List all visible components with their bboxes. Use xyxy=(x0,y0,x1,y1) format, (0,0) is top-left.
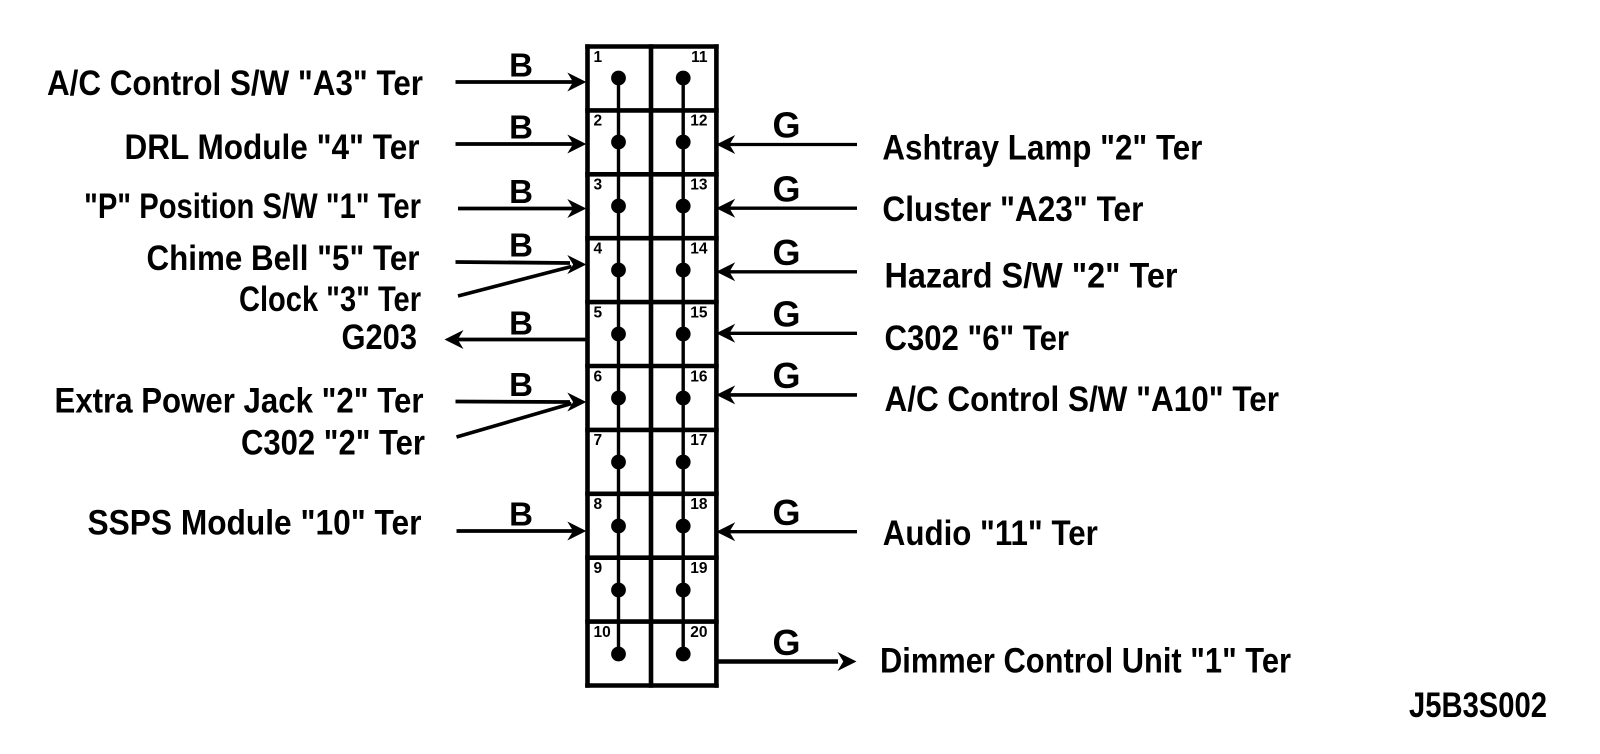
svg-text:Extra Power Jack "2" Ter: Extra Power Jack "2" Ter xyxy=(55,382,424,421)
svg-text:Clock "3" Ter: Clock "3" Ter xyxy=(239,280,421,319)
terminal dot pin 19 xyxy=(676,583,691,598)
svg-text:2: 2 xyxy=(594,113,603,130)
svg-text:9: 9 xyxy=(594,560,603,577)
svg-text:G: G xyxy=(772,169,800,210)
svg-text:Hazard S/W "2" Ter: Hazard S/W "2" Ter xyxy=(885,257,1178,296)
wire B into pin 4 (from Chime Bell) xyxy=(456,255,587,274)
svg-text:10: 10 xyxy=(594,624,611,641)
svg-text:"P" Position S/W "1" Ter: "P" Position S/W "1" Ter xyxy=(84,187,421,226)
svg-text:16: 16 xyxy=(690,368,708,385)
wire G into pin 18 xyxy=(716,522,857,541)
svg-text:G: G xyxy=(772,492,800,533)
wire G into pin 14 xyxy=(716,262,857,281)
wire from C302 "2" Ter into pin 6 (diagonal) xyxy=(457,404,572,438)
svg-text:G: G xyxy=(772,355,800,396)
svg-text:4: 4 xyxy=(594,241,603,258)
svg-text:B: B xyxy=(509,366,533,403)
wire B into pin 1 xyxy=(456,73,587,92)
svg-text:B: B xyxy=(509,109,533,146)
terminal dot pin 20 xyxy=(676,647,691,662)
wire B into pin 6 (from Extra Power Jack) xyxy=(456,393,587,412)
svg-text:3: 3 xyxy=(594,177,603,194)
svg-text:7: 7 xyxy=(594,432,603,449)
terminal dot pin 10 xyxy=(611,647,626,662)
terminal dot pin 13 xyxy=(676,199,691,214)
terminal bus wire, right column (pins 11-20) xyxy=(682,78,685,654)
terminal dot pin 18 xyxy=(676,519,691,534)
terminal dot pin 14 xyxy=(676,263,691,278)
svg-text:19: 19 xyxy=(690,560,708,577)
svg-text:12: 12 xyxy=(690,113,707,130)
terminal dot pin 17 xyxy=(676,455,691,470)
svg-text:C302 "6" Ter: C302 "6" Ter xyxy=(885,319,1070,358)
terminal dot pin 3 xyxy=(611,199,626,214)
terminal dot pin 4 xyxy=(611,263,626,278)
svg-text:G: G xyxy=(772,294,800,335)
terminal dot pin 9 xyxy=(611,583,626,598)
svg-text:6: 6 xyxy=(594,368,603,385)
svg-text:B: B xyxy=(509,305,533,342)
svg-text:Ashtray Lamp "2" Ter: Ashtray Lamp "2" Ter xyxy=(882,129,1202,168)
terminal bus wire, left column (pins 1-10) xyxy=(617,78,620,654)
svg-text:G203: G203 xyxy=(342,318,418,357)
wire B into pin 8 xyxy=(457,522,587,541)
svg-text:13: 13 xyxy=(690,177,708,194)
svg-text:17: 17 xyxy=(690,432,707,449)
svg-text:B: B xyxy=(509,173,533,210)
wire B into pin 3 xyxy=(458,199,586,218)
svg-text:A/C Control S/W "A10" Ter: A/C Control S/W "A10" Ter xyxy=(885,380,1280,419)
svg-text:8: 8 xyxy=(594,496,603,513)
svg-text:J5B3S002: J5B3S002 xyxy=(1409,686,1547,725)
wire B into pin 2 xyxy=(456,135,587,154)
svg-text:G: G xyxy=(772,622,800,663)
svg-text:DRL Module "4" Ter: DRL Module "4" Ter xyxy=(125,128,420,167)
terminal dot pin 7 xyxy=(611,455,626,470)
svg-text:11: 11 xyxy=(691,49,708,66)
terminal dot pin 12 xyxy=(676,135,691,150)
svg-text:Chime Bell "5" Ter: Chime Bell "5" Ter xyxy=(147,239,420,278)
terminal dot pin 5 xyxy=(611,327,626,342)
wire from Clock "3" Ter into pin 4 (diagonal) xyxy=(458,267,572,297)
svg-text:18: 18 xyxy=(690,496,708,513)
svg-text:B: B xyxy=(509,227,533,264)
svg-text:15: 15 xyxy=(690,304,708,321)
svg-text:A/C Control S/W "A3" Ter: A/C Control S/W "A3" Ter xyxy=(47,64,423,103)
svg-text:B: B xyxy=(509,47,533,84)
wire G into pin 13 xyxy=(716,199,857,218)
terminal dot pin 15 xyxy=(676,327,691,342)
wire G into pin 16 xyxy=(716,385,857,404)
connector housing grid xyxy=(585,44,719,688)
wire G from pin 20 to Dimmer Control Unit xyxy=(716,652,856,671)
wire G into pin 12 xyxy=(716,135,857,154)
svg-text:5: 5 xyxy=(594,304,603,321)
terminal dot pin 8 xyxy=(611,519,626,534)
terminal dot pin 1 xyxy=(611,71,626,86)
wire G into pin 15 xyxy=(716,324,857,343)
svg-text:C302 "2" Ter: C302 "2" Ter xyxy=(241,424,425,463)
svg-text:B: B xyxy=(509,496,533,533)
wire B from pin 5 to ground G203 xyxy=(445,330,588,349)
svg-text:14: 14 xyxy=(690,241,708,258)
terminal dot pin 11 xyxy=(676,71,691,86)
terminal dot pin 2 xyxy=(611,135,626,150)
svg-text:Dimmer Control Unit "1" Ter: Dimmer Control Unit "1" Ter xyxy=(880,642,1291,681)
terminal dot pin 6 xyxy=(611,391,626,406)
svg-text:20: 20 xyxy=(690,624,707,641)
svg-text:Audio "11" Ter: Audio "11" Ter xyxy=(883,514,1098,553)
terminal dot pin 16 xyxy=(676,391,691,406)
svg-text:Cluster "A23" Ter: Cluster "A23" Ter xyxy=(882,190,1143,229)
svg-text:G: G xyxy=(772,232,800,273)
svg-text:SSPS Module "10" Ter: SSPS Module "10" Ter xyxy=(88,504,422,543)
svg-text:G: G xyxy=(772,105,800,146)
svg-text:1: 1 xyxy=(594,49,603,66)
